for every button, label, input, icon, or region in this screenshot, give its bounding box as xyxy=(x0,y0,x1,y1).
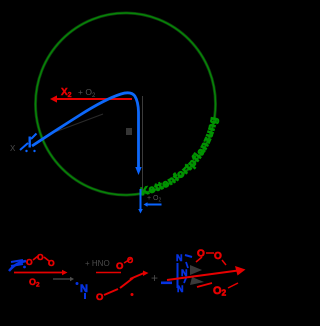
svg-text:X: X xyxy=(10,144,16,153)
svg-text:O: O xyxy=(214,251,222,262)
svg-text:O: O xyxy=(37,252,44,262)
svg-text:O: O xyxy=(48,258,55,268)
svg-text:O: O xyxy=(26,257,33,267)
svg-text:+ HNO: + HNO xyxy=(85,259,110,268)
svg-text:O: O xyxy=(116,261,123,272)
svg-text:O: O xyxy=(96,292,103,303)
svg-text:N: N xyxy=(176,253,183,263)
svg-text:+: + xyxy=(151,271,158,285)
svg-text:N: N xyxy=(177,284,184,294)
